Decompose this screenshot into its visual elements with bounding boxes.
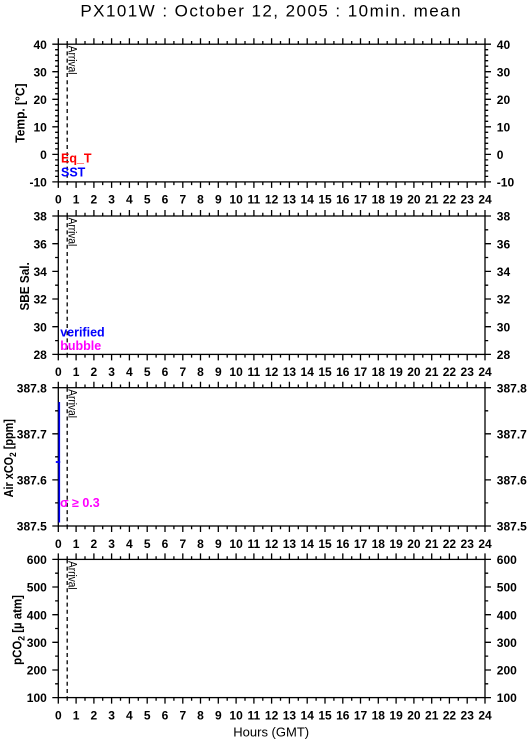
svg-text:21: 21 [425, 537, 439, 551]
svg-text:100: 100 [27, 691, 47, 705]
subplot 3 arrival dashed line [66, 388, 68, 526]
svg-text:15: 15 [318, 365, 332, 379]
subplot 3 y major ticks [52, 388, 491, 526]
svg-text:15: 15 [318, 193, 332, 207]
svg-text:34: 34 [497, 265, 511, 279]
svg-text:5: 5 [144, 708, 151, 722]
subplot 2 y minor ticks [55, 230, 488, 341]
svg-text:22: 22 [443, 365, 457, 379]
svg-text:40: 40 [33, 38, 47, 52]
subplot 4 arrival label [66, 561, 79, 590]
svg-text:16: 16 [336, 708, 350, 722]
svg-text:8: 8 [197, 537, 204, 551]
subplot 4 y major ticks [52, 559, 491, 697]
svg-text:8: 8 [197, 365, 204, 379]
svg-text:23: 23 [461, 537, 475, 551]
svg-text:15: 15 [318, 708, 332, 722]
svg-text:9: 9 [215, 708, 222, 722]
svg-text:4: 4 [126, 708, 133, 722]
svg-text:17: 17 [354, 537, 368, 551]
svg-text:22: 22 [443, 537, 457, 551]
svg-text:5: 5 [144, 537, 151, 551]
subplot 3 y minor ticks [55, 411, 488, 503]
svg-text:24: 24 [478, 537, 492, 551]
svg-text:30: 30 [497, 320, 511, 334]
svg-text:11: 11 [248, 708, 261, 722]
subplot 4 arrival dashed line [66, 559, 68, 697]
svg-text:19: 19 [389, 365, 403, 379]
svg-text:36: 36 [33, 237, 47, 251]
svg-text:600: 600 [27, 553, 47, 567]
svg-text:SST: SST [61, 166, 86, 180]
svg-text:200: 200 [27, 664, 47, 678]
svg-text:20: 20 [497, 93, 511, 107]
svg-text:12: 12 [265, 365, 279, 379]
svg-text:500: 500 [497, 581, 517, 595]
svg-text:387.7: 387.7 [497, 427, 527, 441]
svg-text:17: 17 [354, 708, 368, 722]
svg-text:4: 4 [126, 365, 133, 379]
svg-text:Arrival: Arrival [66, 561, 79, 590]
svg-text:300: 300 [27, 636, 47, 650]
svg-text:100: 100 [497, 691, 517, 705]
svg-text:23: 23 [461, 365, 475, 379]
subplot 4 y minor ticks [55, 573, 488, 684]
subplot 4 x major ticks [58, 553, 485, 703]
svg-text:3: 3 [108, 193, 115, 207]
svg-text:10: 10 [229, 708, 243, 722]
svg-text:1: 1 [73, 365, 80, 379]
svg-text:14: 14 [301, 708, 315, 722]
svg-text:6: 6 [162, 365, 169, 379]
svg-text:Arrival: Arrival [66, 389, 79, 418]
svg-text:18: 18 [372, 365, 386, 379]
svg-text:bubble: bubble [60, 339, 101, 353]
subplot 2 x major ticks [58, 210, 485, 360]
svg-text:Temp. [°C]: Temp. [°C] [13, 83, 27, 142]
subplot 2 axes box [58, 216, 485, 354]
svg-text:30: 30 [497, 65, 511, 79]
svg-text:9: 9 [215, 193, 222, 207]
subplot 1 x major ticks [58, 38, 485, 188]
svg-text:13: 13 [283, 537, 297, 551]
svg-text:15: 15 [318, 537, 332, 551]
svg-text:23: 23 [461, 193, 475, 207]
svg-text:5: 5 [144, 365, 151, 379]
subplot 4 x minor ticks [67, 556, 476, 701]
svg-text:14: 14 [301, 365, 315, 379]
svg-text:12: 12 [265, 708, 279, 722]
svg-text:500: 500 [27, 581, 47, 595]
svg-text:387.8: 387.8 [497, 381, 527, 395]
svg-text:7: 7 [179, 708, 186, 722]
svg-text:10: 10 [33, 120, 47, 134]
svg-text:400: 400 [27, 608, 47, 622]
svg-text:7: 7 [179, 193, 186, 207]
svg-text:34: 34 [33, 265, 47, 279]
svg-text:387.6: 387.6 [17, 474, 47, 488]
subplot 1 arrival label [66, 46, 79, 75]
svg-text:3: 3 [108, 365, 115, 379]
subplot 1 y axis title [13, 83, 27, 142]
svg-text:400: 400 [497, 608, 517, 622]
svg-text:38: 38 [497, 210, 511, 224]
svg-text:12: 12 [265, 537, 279, 551]
subplot 1 y minor ticks [55, 50, 488, 177]
svg-text:verified: verified [60, 325, 104, 339]
svg-text:pCO2 [µ atm]: pCO2 [µ atm] [10, 595, 27, 665]
svg-text:0: 0 [55, 193, 62, 207]
svg-text:22: 22 [443, 708, 457, 722]
svg-text:3: 3 [108, 708, 115, 722]
svg-text:20: 20 [407, 708, 421, 722]
subplot 1 arrival dashed line [66, 44, 68, 182]
svg-text:21: 21 [425, 193, 439, 207]
svg-text:18: 18 [372, 708, 386, 722]
svg-text:9: 9 [215, 365, 222, 379]
svg-text:32: 32 [33, 293, 47, 307]
svg-text:-10: -10 [497, 176, 515, 190]
svg-text:10: 10 [229, 365, 243, 379]
svg-text:0: 0 [55, 537, 62, 551]
svg-text:17: 17 [354, 193, 368, 207]
svg-text:13: 13 [283, 193, 297, 207]
svg-text:5: 5 [144, 193, 151, 207]
svg-text:SBE Sal.: SBE Sal. [18, 262, 32, 310]
svg-text:21: 21 [425, 708, 439, 722]
subplot 2 arrival label [66, 218, 79, 247]
svg-text:8: 8 [197, 193, 204, 207]
svg-text:21: 21 [425, 365, 439, 379]
svg-text:14: 14 [301, 193, 315, 207]
subplot 2 arrival dashed line [66, 216, 68, 354]
svg-text:16: 16 [336, 537, 350, 551]
svg-text:Arrival: Arrival [66, 218, 79, 247]
subplot 4 y axis title [10, 595, 27, 665]
svg-text:387.8: 387.8 [17, 381, 47, 395]
svg-text:200: 200 [497, 664, 517, 678]
svg-text:16: 16 [336, 365, 350, 379]
svg-text:18: 18 [372, 193, 386, 207]
svg-text:Air xCO2 [ppm]: Air xCO2 [ppm] [3, 419, 19, 497]
svg-text:10: 10 [229, 193, 243, 207]
svg-text:23: 23 [461, 708, 475, 722]
svg-text:4: 4 [126, 193, 133, 207]
svg-text:19: 19 [389, 193, 403, 207]
svg-text:-10: -10 [29, 176, 47, 190]
svg-text:19: 19 [389, 708, 403, 722]
svg-text:20: 20 [407, 193, 421, 207]
svg-text:Arrival: Arrival [66, 46, 79, 75]
svg-text:30: 30 [33, 65, 47, 79]
subplot 3 axes box [58, 388, 485, 526]
subplot 3 x major ticks [58, 382, 485, 532]
svg-text:11: 11 [248, 537, 261, 551]
svg-text:38: 38 [33, 210, 47, 224]
subplot 3 y axis title [3, 419, 19, 497]
svg-text:600: 600 [497, 553, 517, 567]
subplot 4 axes box [58, 559, 485, 697]
svg-text:24: 24 [478, 708, 492, 722]
svg-text:18: 18 [372, 537, 386, 551]
svg-text:7: 7 [179, 537, 186, 551]
svg-text:0: 0 [55, 365, 62, 379]
svg-text:300: 300 [497, 636, 517, 650]
svg-text:3: 3 [108, 537, 115, 551]
svg-text:1: 1 [73, 537, 80, 551]
svg-text:11: 11 [248, 193, 261, 207]
svg-text:0: 0 [497, 148, 504, 162]
svg-text:13: 13 [283, 365, 297, 379]
svg-text:36: 36 [497, 237, 511, 251]
svg-text:387.5: 387.5 [497, 520, 527, 534]
svg-text:2: 2 [91, 193, 98, 207]
svg-text:24: 24 [478, 193, 492, 207]
subplot 3 x minor ticks [67, 385, 476, 530]
svg-text:Eq_T: Eq_T [61, 151, 92, 165]
subplot 2 x minor ticks [67, 213, 476, 358]
svg-text:387.5: 387.5 [17, 520, 47, 534]
svg-text:8: 8 [197, 708, 204, 722]
svg-text:20: 20 [407, 365, 421, 379]
svg-text:2: 2 [91, 537, 98, 551]
svg-text:0: 0 [55, 708, 62, 722]
svg-text:20: 20 [33, 93, 47, 107]
subplot 2 y axis title [18, 262, 32, 310]
svg-text:4: 4 [126, 537, 133, 551]
svg-text:28: 28 [33, 348, 47, 362]
svg-text:14: 14 [301, 537, 315, 551]
svg-text:1: 1 [73, 708, 80, 722]
svg-text:Hours (GMT): Hours (GMT) [233, 724, 309, 739]
svg-text:PX101W : October 12, 2005 : 10: PX101W : October 12, 2005 : 10min. mean [80, 1, 462, 20]
svg-text:24: 24 [478, 365, 492, 379]
subplot 1 y major ticks [52, 44, 491, 182]
svg-text:2: 2 [91, 708, 98, 722]
subplot 1 x minor ticks [67, 41, 476, 185]
svg-text:7: 7 [179, 365, 186, 379]
svg-text:10: 10 [229, 537, 243, 551]
svg-text:30: 30 [33, 320, 47, 334]
svg-text:16: 16 [336, 193, 350, 207]
air xCO2 blue data line [58, 402, 60, 523]
subplot 2 y major ticks [52, 216, 491, 354]
svg-text:12: 12 [265, 193, 279, 207]
svg-text:6: 6 [162, 537, 169, 551]
subplot 3 arrival label [66, 389, 79, 418]
svg-text:28: 28 [497, 348, 511, 362]
svg-text:22: 22 [443, 193, 457, 207]
air xCO2 blue data tick [56, 461, 60, 463]
svg-text:6: 6 [162, 708, 169, 722]
svg-text:40: 40 [497, 38, 511, 52]
svg-text:10: 10 [497, 120, 511, 134]
svg-text:32: 32 [497, 293, 511, 307]
subplot 1 axes box [58, 44, 485, 182]
svg-text:13: 13 [283, 708, 297, 722]
svg-text:2: 2 [91, 365, 98, 379]
svg-text:19: 19 [389, 537, 403, 551]
svg-text:9: 9 [215, 537, 222, 551]
svg-text:σ ≥ 0.3: σ ≥ 0.3 [60, 496, 100, 510]
svg-text:1: 1 [73, 193, 80, 207]
svg-text:17: 17 [354, 365, 368, 379]
svg-text:20: 20 [407, 537, 421, 551]
svg-text:11: 11 [248, 365, 261, 379]
svg-text:387.6: 387.6 [497, 474, 527, 488]
svg-text:6: 6 [162, 193, 169, 207]
svg-text:387.7: 387.7 [17, 427, 47, 441]
svg-text:0: 0 [40, 148, 47, 162]
